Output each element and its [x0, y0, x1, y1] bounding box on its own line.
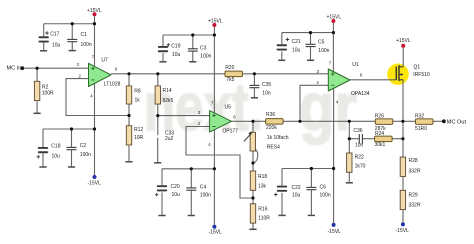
- svg-text:R22: R22: [355, 155, 364, 161]
- svg-text:100n: 100n: [80, 152, 91, 158]
- svg-text:-15VL: -15VL: [88, 180, 102, 186]
- svg-text:R24: R24: [375, 131, 384, 137]
- svg-text:10R: 10R: [134, 135, 144, 141]
- svg-text:R20: R20: [225, 65, 234, 71]
- svg-text:C20: C20: [171, 184, 180, 190]
- svg-text:-15VL: -15VL: [328, 229, 342, 235]
- svg-text:10u: 10u: [172, 52, 181, 58]
- svg-text:332R: 332R: [409, 203, 421, 209]
- svg-text:10u: 10u: [292, 47, 301, 53]
- svg-text:+15VL: +15VL: [396, 38, 411, 44]
- svg-text:10u: 10u: [292, 193, 301, 199]
- svg-text:U7: U7: [101, 57, 108, 63]
- svg-text:7k5: 7k5: [226, 77, 234, 83]
- svg-text:1k70: 1k70: [355, 164, 366, 170]
- svg-text:C18: C18: [51, 144, 60, 150]
- svg-text:+15VL: +15VL: [208, 18, 223, 24]
- svg-text:OPA134: OPA134: [351, 91, 370, 97]
- svg-text:100R: 100R: [42, 90, 54, 96]
- svg-text:next.: next.: [144, 69, 263, 145]
- svg-text:100n: 100n: [320, 192, 331, 198]
- svg-text:C17: C17: [50, 31, 59, 37]
- svg-text:LT1028: LT1028: [104, 82, 121, 88]
- svg-text:C5: C5: [318, 39, 325, 45]
- svg-text:OP177: OP177: [222, 129, 238, 135]
- svg-text:1k 10fach: 1k 10fach: [267, 135, 289, 141]
- svg-text:C1: C1: [81, 32, 88, 38]
- svg-text:30k1: 30k1: [375, 142, 386, 148]
- svg-text:110R: 110R: [258, 216, 270, 222]
- svg-text:C22: C22: [292, 185, 301, 191]
- svg-text:U1: U1: [352, 62, 359, 68]
- svg-text:R16: R16: [258, 206, 267, 212]
- svg-text:C6: C6: [320, 184, 327, 190]
- svg-text:R36: R36: [266, 112, 275, 118]
- svg-text:RES4: RES4: [267, 144, 280, 150]
- svg-text:10n: 10n: [355, 142, 364, 148]
- svg-text:+15VL: +15VL: [87, 8, 102, 14]
- svg-text:MC Out: MC Out: [447, 120, 467, 126]
- svg-text:-15VL: -15VL: [209, 229, 223, 235]
- svg-text:100n: 100n: [318, 48, 329, 54]
- svg-text:C3: C3: [200, 45, 207, 51]
- svg-text:C4: C4: [200, 184, 207, 190]
- svg-text:220k: 220k: [266, 125, 277, 131]
- svg-text:10n: 10n: [262, 90, 271, 96]
- svg-text:R12: R12: [134, 127, 143, 133]
- svg-text:10u: 10u: [52, 154, 61, 160]
- svg-text:100n: 100n: [81, 42, 92, 48]
- svg-text:C36: C36: [353, 128, 362, 134]
- svg-text:100n: 100n: [200, 53, 211, 59]
- svg-text:10u: 10u: [52, 42, 61, 48]
- svg-text:R28: R28: [409, 158, 418, 164]
- svg-text:332R: 332R: [409, 168, 421, 174]
- svg-text:C21: C21: [292, 39, 301, 45]
- svg-text:R14: R14: [163, 88, 172, 94]
- svg-text:10u: 10u: [172, 192, 181, 198]
- svg-text:2u2: 2u2: [165, 136, 174, 142]
- svg-text:Q1: Q1: [414, 64, 421, 70]
- svg-text:R8: R8: [134, 88, 141, 94]
- svg-text:R26: R26: [375, 114, 384, 120]
- svg-text:+15VL: +15VL: [327, 15, 342, 21]
- svg-text:100n: 100n: [200, 192, 211, 198]
- svg-text:-15VL: -15VL: [396, 228, 410, 234]
- svg-text:82k5: 82k5: [163, 98, 174, 104]
- svg-text:51R0: 51R0: [415, 126, 427, 132]
- svg-text:13k: 13k: [258, 183, 267, 189]
- svg-text:IRF510: IRF510: [413, 72, 430, 78]
- svg-text:C35: C35: [262, 82, 271, 88]
- svg-text:R32: R32: [415, 114, 424, 120]
- svg-text:U5: U5: [225, 105, 232, 111]
- svg-text:C19: C19: [171, 43, 180, 49]
- svg-text:MC In: MC In: [7, 65, 22, 71]
- svg-text:C2: C2: [80, 143, 87, 149]
- svg-text:1k: 1k: [135, 98, 141, 104]
- svg-text:R29: R29: [409, 192, 418, 198]
- svg-text:R18: R18: [258, 174, 267, 180]
